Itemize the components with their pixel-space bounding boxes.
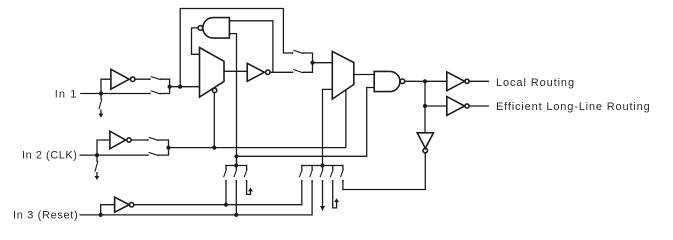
ground arrow In2: [96, 173, 98, 177]
wire node A down to node C: [424, 81, 426, 106]
pull-up arrow left: [248, 188, 253, 192]
wire S4 to node B: [303, 63, 313, 73]
switch S10 (left leg 2): [235, 166, 237, 170]
wire U6 output: [131, 139, 148, 141]
inverter U3 (local routing driver): [447, 72, 469, 91]
right switch bracket: [302, 165, 343, 167]
wire S3 to node B: [303, 53, 313, 63]
wire M1 select to CLK rail: [213, 93, 215, 148]
node reset tap: [234, 213, 238, 217]
ground arrow right group: [320, 206, 325, 211]
wire rail to left bracket: [236, 156, 238, 165]
switch S6 (In2 direct path): [147, 154, 149, 156]
wire latch feedback rail: [237, 88, 375, 157]
inverter U5 (down-pointing): [417, 133, 433, 153]
svg-text:Local Routing: Local Routing: [496, 77, 575, 89]
wire G1 output to mux M1 upper input: [192, 28, 200, 54]
node In1 merge: [168, 85, 172, 89]
wire node B to mux M2: [313, 62, 333, 64]
node out A: [423, 79, 427, 83]
wire U4 output: [469, 105, 488, 107]
node out C: [423, 104, 427, 108]
wire bypass loop (up, across top, down, to switch S3): [180, 9, 292, 87]
node feedback rail start: [234, 154, 238, 158]
switch S15 (right leg 4, pull-up): [332, 166, 334, 170]
node In1 junction: [99, 91, 103, 95]
wire S2 to merge node: [160, 87, 169, 94]
wire CLK rail: [169, 90, 346, 148]
switch S12 (right leg 1, reset-bar): [301, 166, 303, 170]
svg-text:In 2 (CLK): In 2 (CLK): [22, 150, 77, 162]
node bracket right: [320, 163, 324, 167]
inverter U2 (latch): [247, 63, 270, 81]
nand G1 (left-pointing, inverted input latch gate): [198, 18, 229, 38]
node bypass takeoff: [178, 85, 182, 89]
switch S13 (right leg 2, reset): [311, 166, 313, 170]
switch S9 (left leg 1): [225, 166, 227, 170]
switch S8 (In2 unused pulldown): [96, 155, 98, 161]
switch S14 (right leg 3, pulldown): [322, 166, 324, 170]
switch S4 (latch output path): [292, 71, 294, 73]
inverter U6 (In2 buffer): [110, 131, 131, 149]
mux M1: [200, 48, 225, 98]
wire In3 up branch: [101, 205, 115, 215]
wire S6 to merge: [158, 148, 168, 156]
wire U3 output: [469, 80, 488, 82]
inverter U7 (In3 buffer): [115, 197, 134, 212]
wire node C to inverter U4: [425, 105, 447, 107]
switch S2 (In1 direct path): [149, 93, 151, 95]
node B: [310, 61, 314, 65]
wire In3 input: [80, 214, 312, 216]
switch S3 (bypass upper): [292, 52, 294, 54]
node bracket left: [234, 163, 238, 167]
wire bracket riser to mux M2 lower input: [323, 89, 333, 165]
wire merge to mux M1: [170, 86, 200, 88]
inverter U4 (long-line driver): [447, 97, 469, 116]
switch S5 (In2 inverted path): [147, 139, 149, 141]
nand G2: [374, 71, 405, 91]
switch S11 (left leg 3, to pull-up): [246, 166, 248, 170]
wire M2 output to nand G2: [354, 74, 374, 76]
wire In1 input: [81, 93, 150, 95]
switch S16 (right leg 5, to U5): [342, 166, 344, 170]
svg-text:In 1: In 1: [55, 89, 78, 101]
node reset-bar tap: [224, 203, 228, 207]
wire U7 output (reset-bar line): [134, 204, 302, 206]
node In3 junction: [99, 213, 103, 217]
wire M1 output to inverter U2: [224, 70, 247, 72]
wire In1 up branch to inverter: [101, 79, 111, 93]
pull-up arrow right: [334, 198, 339, 202]
wire U1 output: [135, 78, 150, 80]
inverter U1 (In1 buffer): [111, 69, 135, 89]
wire node C down to inverter U5: [424, 106, 426, 133]
left switch bracket: [226, 165, 247, 167]
svg-text:In 3 (Reset): In 3 (Reset): [13, 210, 78, 222]
switch S1 (In1 inverted path): [149, 78, 151, 80]
wire In2 up branch: [97, 140, 110, 155]
wire U2 output: [270, 71, 292, 73]
node CLK to M1 select: [212, 146, 216, 150]
wire In2 input: [80, 154, 148, 156]
wire U5 output down and left to switch: [343, 153, 425, 190]
node In2 junction: [95, 153, 99, 157]
wire S1 to merge node: [160, 79, 169, 87]
node In2 merge (CLK rail start): [166, 146, 170, 150]
wire G1 top input from latch Q: [229, 21, 273, 73]
ground arrow In1: [100, 110, 102, 114]
wire G1 bottom input feedback (long vertical to bracket): [229, 34, 236, 166]
switch S7 (In1 unused pulldown): [100, 94, 102, 99]
wire S5 to merge: [158, 140, 168, 148]
mux M2: [332, 51, 354, 99]
svg-text:Efficient Long-Line Routing: Efficient Long-Line Routing: [496, 101, 651, 113]
wire G2 output: [405, 80, 447, 82]
